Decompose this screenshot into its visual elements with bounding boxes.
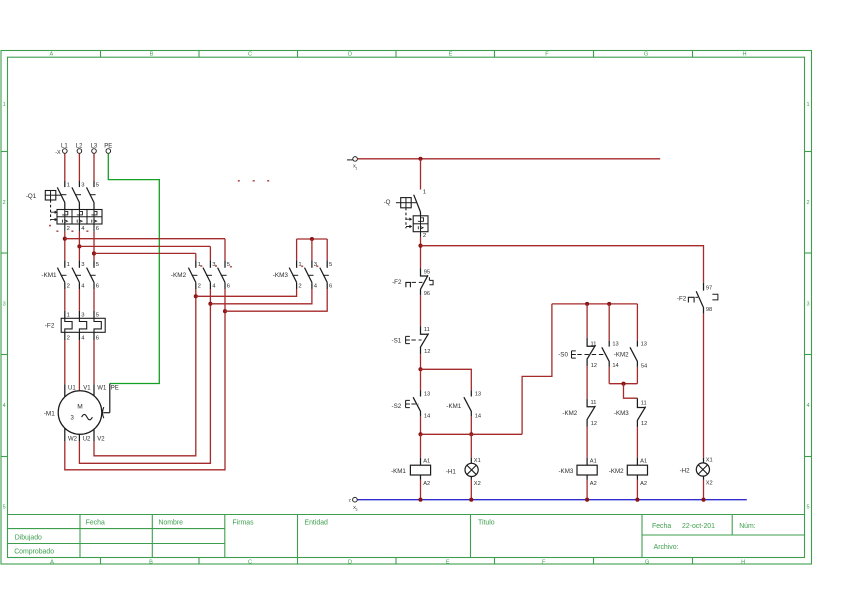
svg-text:5: 5 xyxy=(806,505,809,511)
svg-text:-S1: -S1 xyxy=(392,338,402,345)
svg-text:-KM2: -KM2 xyxy=(171,272,187,279)
svg-text:X1: X1 xyxy=(474,458,481,464)
svg-text:1: 1 xyxy=(423,190,426,196)
svg-text:2: 2 xyxy=(423,233,426,239)
svg-text:-Q1: -Q1 xyxy=(26,193,37,200)
svg-text:L1: L1 xyxy=(61,143,68,149)
svg-text:1: 1 xyxy=(806,102,809,108)
svg-text:W2: W2 xyxy=(68,436,78,442)
svg-text:Núm:: Núm: xyxy=(739,523,756,530)
svg-text:X2: X2 xyxy=(706,480,713,486)
svg-text:12: 12 xyxy=(641,421,647,427)
svg-text:Entidad: Entidad xyxy=(305,519,329,526)
svg-text:F: F xyxy=(545,52,549,58)
svg-text:12: 12 xyxy=(591,421,597,427)
svg-text:L3: L3 xyxy=(91,143,98,149)
svg-text:13: 13 xyxy=(424,392,430,398)
svg-text:5: 5 xyxy=(3,505,6,511)
svg-text:D: D xyxy=(348,559,352,565)
svg-text:Fecha: Fecha xyxy=(86,519,105,526)
svg-text:A: A xyxy=(50,559,54,565)
svg-text:G: G xyxy=(645,559,649,565)
svg-text:-KM1: -KM1 xyxy=(41,272,57,279)
svg-text:H: H xyxy=(742,52,746,58)
svg-text:2: 2 xyxy=(67,226,70,232)
svg-text:B: B xyxy=(149,559,153,565)
svg-text:L2: L2 xyxy=(76,143,83,149)
svg-text:H: H xyxy=(741,559,745,565)
svg-text:-KM3: -KM3 xyxy=(273,272,289,279)
svg-text:C: C xyxy=(248,559,252,565)
svg-text:W1: W1 xyxy=(97,385,107,391)
svg-text:13: 13 xyxy=(612,342,618,348)
svg-text:97: 97 xyxy=(706,286,712,292)
svg-text:2: 2 xyxy=(298,284,301,290)
svg-text:3: 3 xyxy=(806,302,809,308)
svg-text:U1: U1 xyxy=(68,385,76,391)
svg-text:-X: -X xyxy=(55,150,61,156)
svg-text:E: E xyxy=(449,52,453,58)
svg-text:22-oct-201: 22-oct-201 xyxy=(682,523,715,530)
svg-text:1: 1 xyxy=(3,102,6,108)
svg-text:14: 14 xyxy=(612,363,618,369)
svg-text:-Q: -Q xyxy=(384,199,391,206)
svg-text:PE: PE xyxy=(104,143,112,149)
svg-text:2: 2 xyxy=(3,200,6,206)
svg-text:A1: A1 xyxy=(423,458,430,464)
svg-text:A2: A2 xyxy=(640,481,647,487)
svg-text:X1: X1 xyxy=(706,458,713,464)
svg-text:1: 1 xyxy=(67,313,70,319)
svg-text:A1: A1 xyxy=(590,458,597,464)
svg-text:-F2: -F2 xyxy=(677,296,687,303)
svg-text:A2: A2 xyxy=(423,481,430,487)
svg-text:-H1: -H1 xyxy=(446,469,457,476)
svg-text:95: 95 xyxy=(424,270,430,276)
svg-text:U2: U2 xyxy=(83,436,91,442)
svg-text:Titulo: Titulo xyxy=(478,519,495,526)
svg-text:-KM3: -KM3 xyxy=(614,410,629,417)
svg-text:M: M xyxy=(77,404,83,411)
svg-text:X2: X2 xyxy=(474,481,481,487)
svg-text:12: 12 xyxy=(591,363,597,369)
svg-text:2: 2 xyxy=(806,200,809,206)
svg-text:-KM2: -KM2 xyxy=(609,468,624,475)
svg-text:-KM3: -KM3 xyxy=(559,468,574,475)
svg-text:B: B xyxy=(150,52,154,58)
svg-text:-KM2: -KM2 xyxy=(562,410,577,417)
svg-text:2: 2 xyxy=(67,284,70,290)
svg-text:11: 11 xyxy=(641,400,647,406)
svg-text:E: E xyxy=(446,559,450,565)
svg-text:11: 11 xyxy=(591,342,597,348)
svg-text:11: 11 xyxy=(591,400,597,406)
svg-text:14: 14 xyxy=(475,413,481,419)
svg-text:V2: V2 xyxy=(97,436,105,442)
svg-text:3: 3 xyxy=(3,302,6,308)
svg-text:4: 4 xyxy=(806,403,809,409)
svg-text:1: 1 xyxy=(67,262,70,268)
svg-text:11: 11 xyxy=(424,327,430,333)
svg-text:A1: A1 xyxy=(640,458,647,464)
svg-text:C: C xyxy=(248,52,252,58)
svg-text:14: 14 xyxy=(424,413,430,419)
svg-text:2: 2 xyxy=(67,336,70,342)
svg-text:2: 2 xyxy=(198,284,201,290)
svg-text:Comprobado: Comprobado xyxy=(14,548,54,555)
svg-text:2: 2 xyxy=(356,508,358,512)
svg-text:4: 4 xyxy=(3,403,6,409)
svg-text:V1: V1 xyxy=(83,385,91,391)
svg-text:96: 96 xyxy=(424,291,430,297)
svg-text:-M1: -M1 xyxy=(44,411,55,418)
svg-text:PE: PE xyxy=(111,385,119,391)
svg-text:Nombre: Nombre xyxy=(159,519,184,526)
svg-text:F: F xyxy=(542,559,546,565)
svg-text:-KM2: -KM2 xyxy=(614,351,629,358)
svg-text:Dibujado: Dibujado xyxy=(15,534,42,541)
svg-text:1: 1 xyxy=(198,262,201,268)
svg-text:54: 54 xyxy=(641,363,647,369)
svg-text:-S2: -S2 xyxy=(392,403,402,410)
svg-text:G: G xyxy=(644,52,648,58)
svg-text:1: 1 xyxy=(298,262,301,268)
svg-text:1: 1 xyxy=(67,182,70,188)
svg-text:-KM1: -KM1 xyxy=(391,468,406,475)
svg-text:A: A xyxy=(50,52,54,58)
svg-text:D: D xyxy=(348,52,352,58)
svg-text:-KM1: -KM1 xyxy=(446,403,461,410)
svg-text:13: 13 xyxy=(475,392,481,398)
svg-text:Firmas: Firmas xyxy=(233,519,255,526)
svg-text:-H2: -H2 xyxy=(680,468,691,475)
svg-text:Archivo:: Archivo: xyxy=(654,544,679,551)
svg-text:Fecha: Fecha xyxy=(652,523,671,530)
svg-text:-F2: -F2 xyxy=(45,323,55,330)
svg-text:A2: A2 xyxy=(590,481,597,487)
svg-text:98: 98 xyxy=(706,307,712,313)
svg-text:-S0: -S0 xyxy=(558,351,568,358)
svg-text:1: 1 xyxy=(356,167,358,171)
svg-text:12: 12 xyxy=(424,349,430,355)
svg-text:13: 13 xyxy=(641,342,647,348)
svg-text:-F2: -F2 xyxy=(392,279,402,286)
